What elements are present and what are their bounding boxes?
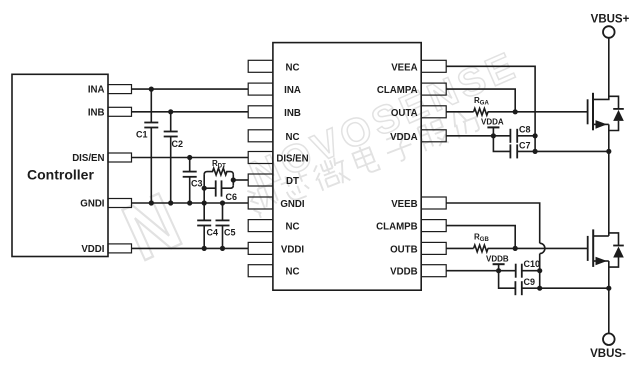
VDDB rail symbol: [486, 254, 509, 270]
capacitor C3: [183, 155, 203, 206]
source vertical to VBUS-: [608, 261, 610, 333]
junction VDDA rail: [491, 133, 496, 138]
MOSFET Q1 (high side): [588, 38, 624, 236]
junction VEEB/C10: [537, 268, 542, 273]
source lead with arrow: [593, 123, 609, 125]
svg-text:VEEA: VEEA: [391, 62, 417, 73]
controller pin VDDI: [108, 244, 132, 253]
DT network: resistor RDT parallel capacitor C6: [202, 159, 249, 203]
junction VEEA/Q1 source: [606, 149, 611, 154]
svg-text:CLAMPA: CLAMPA: [377, 85, 418, 96]
IC right pin OUTB: [421, 242, 446, 254]
svg-text:VBUS+: VBUS+: [591, 14, 630, 26]
wire DIS/EN controller to IC: [132, 157, 249, 159]
wire OUTB with resistor RGB: [446, 247, 473, 249]
svg-text:VDDI: VDDI: [81, 244, 104, 255]
svg-text:C6: C6: [226, 192, 238, 202]
svg-text:NC: NC: [286, 62, 300, 73]
capacitor C4: [197, 200, 218, 251]
wire OUTA to gate: [488, 111, 588, 113]
svg-text:INA: INA: [88, 85, 105, 96]
channel bar: [592, 229, 594, 267]
watermark NOVOSENSE logo N: [111, 44, 525, 278]
white box fills (under watermark): [12, 43, 421, 291]
IC left pin NC: [248, 60, 273, 72]
IC right pin VDDB: [421, 265, 446, 277]
svg-text:NC: NC: [286, 132, 300, 143]
drain lead: [593, 235, 609, 237]
watermark text NOVOSENSE: [244, 44, 525, 198]
IC left pin INA: [248, 83, 273, 95]
IC right pin CLAMPB: [421, 220, 446, 232]
svg-text:VEEB: VEEB: [391, 199, 417, 210]
svg-text:C10: C10: [524, 259, 541, 269]
IC left pin NC: [248, 130, 273, 142]
wire VEEB net: [446, 203, 540, 243]
svg-text:VDDB: VDDB: [486, 254, 509, 263]
svg-text:C4: C4: [207, 228, 219, 238]
capacitor C5: [216, 200, 236, 251]
svg-text:GNDI: GNDI: [80, 199, 105, 210]
svg-text:C1: C1: [136, 130, 148, 140]
hop over OUTB: [540, 243, 545, 253]
junction VEEA/C7: [533, 149, 538, 154]
wire INA controller to IC: [132, 88, 249, 90]
source vertical to switch node: [608, 124, 610, 235]
wire VDDB net: [446, 270, 516, 272]
IC right pin VEEA: [421, 60, 446, 72]
source lead with arrow: [593, 260, 609, 262]
capacitor C9: [515, 277, 608, 295]
body diode D1: [609, 96, 619, 109]
VBUS- terminal: [603, 333, 615, 345]
controller pin INB: [108, 107, 132, 116]
resistor RGA: [474, 108, 488, 115]
controller pin INA: [108, 85, 132, 94]
svg-text:Controller: Controller: [27, 167, 94, 183]
controller pin DIS/EN: [108, 153, 132, 162]
loop bottom with capacitor C6: [222, 185, 234, 188]
svg-text:CLAMPB: CLAMPB: [376, 222, 417, 233]
svg-text:DT: DT: [286, 176, 299, 187]
wire CLAMPA net: [446, 89, 515, 112]
wire CLAMPB net: [446, 226, 515, 249]
VBUS+ terminal: [603, 26, 615, 38]
capacitor C10: [516, 259, 540, 278]
wire GNDI controller to IC: [132, 202, 249, 204]
wire OUTB to gate: [488, 247, 588, 249]
svg-text:C2: C2: [172, 139, 184, 149]
capacitor C1: [136, 87, 158, 206]
watermark CJK line: [246, 105, 482, 219]
IC right pin OUTA: [421, 106, 446, 118]
wire OUTA with resistor RGA: [446, 111, 473, 113]
junction CLAMPA/OUTA: [513, 109, 518, 114]
body diode D2: [609, 233, 619, 246]
capacitor C2: [164, 109, 183, 205]
IC right pin CLAMPA: [421, 83, 446, 95]
IC left pin NC: [248, 265, 273, 277]
svg-text:RGB: RGB: [474, 233, 489, 244]
svg-text:VDDI: VDDI: [281, 244, 304, 255]
svg-text:VDDA: VDDA: [390, 132, 417, 143]
wire VDDI controller to IC: [132, 247, 249, 249]
controller pin GNDI: [108, 199, 132, 208]
svg-text:DIS/EN: DIS/EN: [72, 153, 104, 164]
IC left pin DT: [248, 174, 273, 186]
IC left pin NC: [248, 220, 273, 232]
wire VDDA net: [446, 135, 510, 137]
MOSFET Q2 (low side): [588, 229, 624, 333]
gate bar: [587, 236, 589, 261]
svg-text:INA: INA: [284, 85, 301, 96]
IC left pin INB: [248, 106, 273, 118]
IC left pin VDDI: [248, 242, 273, 254]
channel bar: [592, 93, 594, 131]
capacitor C7: [510, 140, 608, 158]
loop left vertical down to GNDI: [203, 175, 205, 203]
svg-text:INB: INB: [284, 108, 301, 119]
junction VEEA/C8: [533, 133, 538, 138]
IC box U1: [273, 43, 421, 291]
drain lead: [593, 38, 609, 100]
IC left pin GNDI: [248, 197, 273, 209]
wire VDDB down to C9: [499, 271, 516, 289]
svg-text:C5: C5: [224, 228, 236, 238]
svg-text:C9: C9: [524, 277, 536, 287]
svg-text:VDDB: VDDB: [390, 267, 417, 278]
junction VEEB/C9: [537, 286, 542, 291]
junction VDDB rail: [496, 268, 501, 273]
IC right pin VDDA: [421, 130, 446, 142]
junction CLAMPB/OUTB: [513, 246, 518, 251]
wire VEEA net: [446, 66, 535, 151]
svg-text:NC: NC: [286, 267, 300, 278]
junction VEEB/Q2 source: [606, 286, 611, 291]
capacitor C8: [510, 124, 535, 143]
svg-text:INB: INB: [88, 107, 105, 118]
svg-text:DIS/EN: DIS/EN: [276, 154, 308, 165]
svg-text:OUTA: OUTA: [391, 108, 418, 119]
gate bar: [587, 99, 589, 124]
svg-text:C8: C8: [519, 124, 531, 134]
loop top with resistor RDT: [204, 168, 233, 175]
IC left pin DIS/EN: [248, 152, 273, 164]
svg-text:C7: C7: [519, 140, 531, 150]
svg-text:C3: C3: [191, 179, 203, 189]
wire VDDA down to C7: [493, 136, 510, 152]
wire INB controller to IC: [132, 111, 249, 113]
wire DT pin: [233, 179, 248, 181]
IC right pin VEEB: [421, 197, 446, 209]
svg-text:RDT: RDT: [212, 159, 226, 170]
svg-text:VBUS-: VBUS-: [590, 348, 626, 360]
svg-text:VDDA: VDDA: [481, 118, 504, 127]
controller box: [12, 74, 108, 256]
svg-text:NC: NC: [286, 222, 300, 233]
loop right vertical with DT tap: [232, 175, 234, 186]
svg-text:GNDI: GNDI: [280, 199, 305, 210]
VDDA rail symbol: [481, 118, 504, 136]
svg-text:OUTB: OUTB: [390, 244, 417, 255]
resistor RGB: [474, 245, 488, 252]
